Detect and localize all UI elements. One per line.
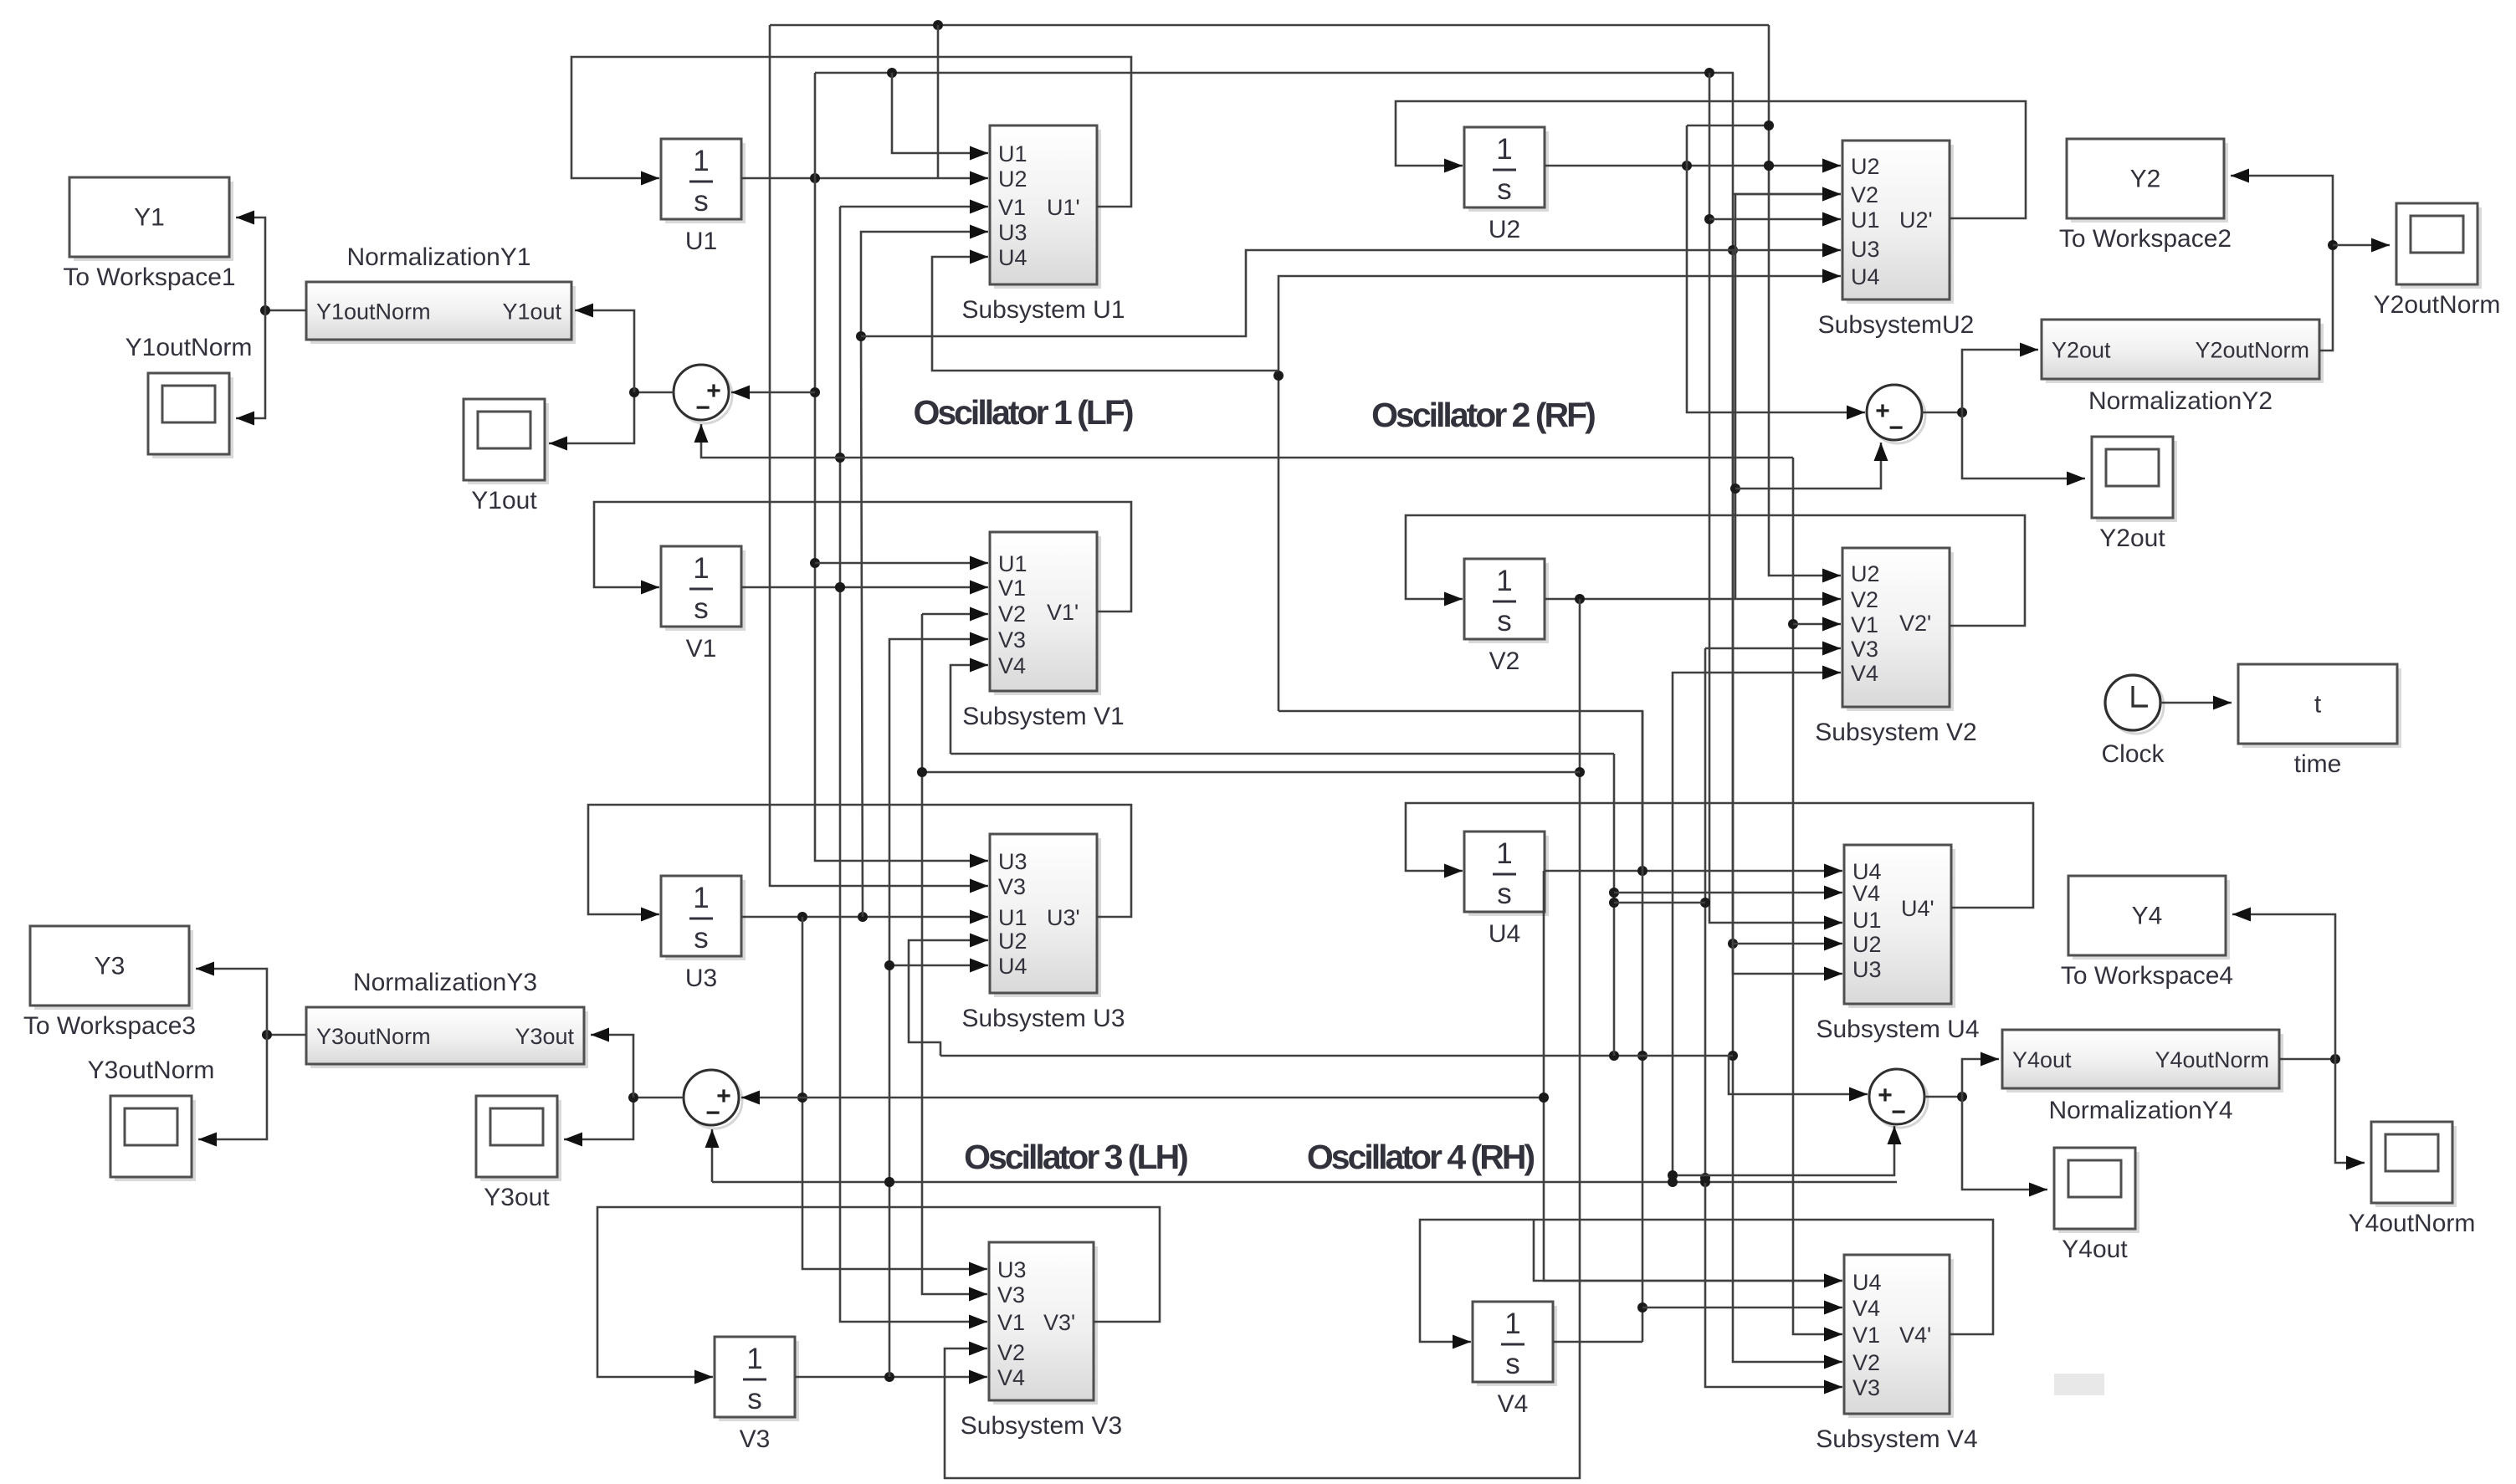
svg-text:U2: U2 — [998, 166, 1027, 192]
svg-text:Y3outNorm: Y3outNorm — [88, 1057, 215, 1084]
wire V3 riser x=1063 — [884, 632, 988, 1378]
svg-text:U4: U4 — [998, 245, 1027, 270]
svg-text:To Workspace4: To Workspace4 — [2061, 962, 2233, 990]
svg-text:V3: V3 — [1851, 637, 1878, 662]
svg-text:V1: V1 — [1851, 612, 1878, 637]
wire U1 integrator output row into Subsystem U1 port U2 — [741, 171, 988, 186]
svg-text:s: s — [694, 922, 709, 954]
wire U1 riser x=2043 down right trunk — [1704, 73, 1842, 930]
svg-text:Y4outNorm: Y4outNorm — [2349, 1210, 2476, 1237]
wire bus y=1312 eastbound to riser x=1845 — [802, 1097, 1544, 1099]
wire node F down to scope Y4outNorm — [2335, 1059, 2365, 1170]
scope Y4out — [2054, 1148, 2139, 1263]
wire V4 jog y=1079 — [1614, 902, 1705, 904]
integrator U2 (1/s) — [1464, 127, 1549, 243]
svg-text:U3: U3 — [997, 1257, 1027, 1282]
wire V2 riser x=2074 — [1730, 187, 1841, 600]
scope Y1out — [464, 399, 549, 514]
svg-text:Y3: Y3 — [95, 953, 126, 980]
svg-text:s: s — [694, 592, 709, 625]
svg-text:U3: U3 — [998, 849, 1027, 874]
svg-text:Y2outNorm: Y2outNorm — [2195, 338, 2309, 363]
scope Y4outNorm — [2349, 1122, 2476, 1237]
svg-text:U4: U4 — [1852, 1270, 1882, 1295]
wire U4 riser x=1963 up from output — [1278, 711, 1642, 871]
svg-text:s: s — [1497, 605, 1512, 637]
wire V1 bus y=547 eastbound — [840, 457, 1793, 459]
wire U3 riser x=2071 into Subsystem U4 port U3 — [1733, 250, 1842, 981]
title Oscillator 2 (RF) — [1371, 396, 1595, 434]
svg-text:To Workspace3: To Workspace3 — [23, 1012, 196, 1040]
clock block Clock — [2101, 675, 2165, 768]
svg-text:Subsystem V2: Subsystem V2 — [1815, 719, 1976, 746]
svg-text:V1: V1 — [997, 1310, 1025, 1335]
svg-text:NormalizationY3: NormalizationY3 — [353, 969, 537, 996]
svg-text:V4: V4 — [1852, 881, 1880, 906]
wire U2 riser x=2114 — [1764, 25, 1841, 583]
wire U2 staircase into Subsystem U3 port U2 — [909, 934, 988, 1057]
svg-text:s: s — [1505, 1348, 1520, 1380]
svg-text:Y2: Y2 — [2130, 166, 2161, 193]
svg-text:U4': U4' — [1901, 896, 1934, 921]
to-workspace Y1 (To Workspace1) — [63, 177, 235, 291]
svg-text:−: − — [705, 1099, 720, 1127]
subsystem V1 — [962, 532, 1124, 730]
svg-text:V4: V4 — [1498, 1390, 1529, 1418]
svg-text:U2: U2 — [1851, 154, 1880, 179]
svg-text:s: s — [1497, 173, 1512, 206]
wire U3 bus y=402 with jog up to y=299 — [861, 243, 1841, 337]
svg-text:−: − — [695, 394, 710, 422]
wire V4 riser x=1999 into Subsystem V2 port V4 — [1673, 666, 1841, 1176]
wire V4 riser x=1136 into Subsystem V1 port V4 — [951, 658, 988, 755]
svg-text:U1: U1 — [1851, 207, 1880, 233]
svg-text:V4: V4 — [1852, 1296, 1880, 1321]
svg-text:V1: V1 — [998, 195, 1026, 220]
svg-text:+: + — [1875, 397, 1890, 425]
subsystem V2 — [1815, 548, 1976, 746]
svg-text:U4: U4 — [998, 954, 1027, 979]
wire node D down to scope Y3outNorm — [198, 1035, 267, 1147]
svg-text:V2: V2 — [1851, 182, 1878, 207]
wire U4 integrator output row into Subsystem U4 port U4 — [1545, 864, 1842, 878]
wire V3 feedback loop (V3' to integrator V3) — [597, 1207, 1160, 1384]
svg-text:V3: V3 — [1852, 1375, 1880, 1400]
svg-text:U2': U2' — [1899, 207, 1933, 233]
svg-text:1: 1 — [693, 145, 709, 177]
svg-text:Y4outNorm: Y4outNorm — [2155, 1047, 2269, 1072]
svg-text:V1: V1 — [686, 635, 717, 663]
svg-text:U3: U3 — [1852, 957, 1882, 982]
subsystem V3 — [961, 1242, 1122, 1440]
svg-text:s: s — [1497, 878, 1512, 910]
normalization block NormalizationY4 — [2002, 1030, 2283, 1124]
svg-text:V4: V4 — [997, 1365, 1025, 1390]
wire U2 jog y=150 — [1687, 125, 1769, 127]
svg-text:V2': V2' — [1899, 611, 1931, 636]
wire U3 integrator output row into Subsystem U3 port U1 — [741, 910, 988, 924]
wire V3 stub into Subsystem V2 port V3 — [1705, 642, 1841, 656]
svg-text:V2: V2 — [997, 1340, 1025, 1365]
to-workspace Y4 (To Workspace4) — [2061, 876, 2233, 990]
svg-text:Y2out: Y2out — [2099, 525, 2165, 552]
wire U2 top bus y=30 — [770, 20, 1769, 30]
wire node to NormalizationY3 input — [591, 1028, 633, 1098]
wire U1 top bus y=87 — [815, 68, 1734, 78]
wire NormalizationY3 output to node D — [262, 1030, 306, 1040]
svg-text:U3: U3 — [998, 220, 1027, 245]
svg-text:To Workspace1: To Workspace1 — [63, 264, 235, 291]
svg-text:1: 1 — [693, 882, 709, 914]
svg-text:U3: U3 — [685, 965, 717, 992]
svg-text:t: t — [2314, 691, 2322, 719]
svg-text:U1: U1 — [685, 228, 717, 255]
subsystem U2 — [1818, 141, 1975, 339]
svg-text:V1: V1 — [1852, 1323, 1880, 1348]
svg-text:Y1out: Y1out — [471, 487, 537, 514]
svg-text:Y1out: Y1out — [502, 299, 561, 325]
integrator V1 (1/s) — [661, 546, 746, 663]
wire node A down to scope Y1outNorm — [236, 310, 265, 426]
svg-text:Subsystem U1: Subsystem U1 — [961, 296, 1125, 324]
svg-text:V3: V3 — [998, 627, 1026, 652]
subsystem U1 — [961, 125, 1125, 324]
wire V4 stub into Subsystem U4 port V4 — [1614, 886, 1842, 900]
wire U3 riser x=1029 (Subsystem U1 port U3) — [856, 225, 988, 918]
svg-text:U1: U1 — [998, 141, 1027, 166]
svg-text:1: 1 — [746, 1343, 762, 1375]
svg-text:NormalizationY2: NormalizationY2 — [2088, 387, 2273, 415]
wire V2 feedback loop (V2' to integrator V2) — [1406, 515, 2025, 626]
svg-text:U2: U2 — [1489, 216, 1520, 243]
wire U3 into sum3 right input — [741, 1091, 802, 1105]
wire U4 stub into Subsystem U3 port U4 — [889, 959, 988, 973]
to-workspace t (time) — [2238, 664, 2401, 778]
wire node B up to NormalizationY2 input — [1962, 343, 2038, 413]
svg-text:Subsystem V3: Subsystem V3 — [961, 1412, 1122, 1440]
svg-text:Y2outNorm: Y2outNorm — [2374, 291, 2501, 319]
wire V4 riser x=1963 (V4 to west bus) — [1637, 711, 1647, 1342]
svg-text:U2: U2 — [998, 929, 1027, 954]
svg-text:SubsystemU2: SubsystemU2 — [1818, 311, 1975, 339]
svg-text:time: time — [2294, 750, 2342, 778]
svg-text:V4': V4' — [1899, 1323, 1931, 1348]
wire V4 bus y=1405 into sum4 bottom input — [1668, 1126, 1902, 1180]
wire V1 integrator output row into Subsystem V1 port V1 — [741, 581, 988, 595]
wire V4 feedback loop (V4' to integrator V4) — [1420, 1220, 1993, 1349]
wire V1 stub into Subsystem V2 port V1 — [1793, 617, 1841, 632]
integrator U3 (1/s) — [661, 876, 746, 992]
svg-text:U2: U2 — [1851, 561, 1880, 586]
svg-text:Y1outNorm: Y1outNorm — [316, 299, 431, 325]
svg-text:Y3outNorm: Y3outNorm — [316, 1024, 431, 1049]
svg-text:s: s — [694, 185, 709, 217]
wire Clock to time block — [2160, 696, 2232, 710]
svg-text:V1: V1 — [998, 576, 1026, 601]
wire V2 bus y=923 westbound — [922, 771, 1580, 774]
wire V1 feedback loop (V1' to integrator V1) — [594, 502, 1131, 612]
wire riser x=2071 long (V2 port / U2 port / V4 V2 port) — [1728, 73, 1842, 1369]
svg-text:U4: U4 — [1489, 920, 1520, 948]
wire V4 bus y=1262 westbound — [940, 1051, 1733, 1061]
wire node F up to To Workspace4 — [2232, 908, 2335, 1060]
to-workspace Y2 (To Workspace2) — [2059, 139, 2232, 253]
wire node to NormalizationY1 input — [575, 304, 634, 393]
svg-text:U2: U2 — [1852, 932, 1882, 957]
subsystem U4 — [1816, 845, 1979, 1043]
wire V2 integrator output row into Subsystem V2 port V2 — [1545, 592, 1841, 606]
wire U3 riser x=959 down to Subsystem V3 port U3 — [797, 917, 987, 1277]
wire U2 stub into Subsystem U1 port U2 riser — [937, 25, 940, 178]
wire U2 integrator output row into SubsystemU2 port U2 — [1545, 159, 1841, 173]
svg-text:V3: V3 — [997, 1282, 1025, 1307]
svg-text:Oscillator 4 (RH): Oscillator 4 (RH) — [1307, 1138, 1535, 1176]
wire U4 bus y=443 to Subsystem U1 port U4 — [932, 250, 1278, 371]
sum block sum2 — [1867, 385, 1925, 443]
svg-text:Y4: Y4 — [2132, 903, 2163, 930]
svg-text:1: 1 — [1496, 837, 1512, 870]
svg-text:U1: U1 — [998, 905, 1027, 930]
title Oscillator 3 (LH) — [964, 1138, 1187, 1176]
wire U2 riser x=920 down to Subsystem U3 port V3 — [770, 25, 988, 893]
svg-text:1: 1 — [1504, 1307, 1520, 1340]
wire sum4 output to node E — [1924, 1092, 1967, 1102]
to-workspace Y3 (To Workspace3) — [23, 926, 196, 1040]
normalization block NormalizationY3 — [306, 969, 588, 1068]
integrator V2 (1/s) — [1464, 559, 1549, 675]
svg-text:To Workspace2: To Workspace2 — [2059, 225, 2232, 253]
svg-text:Subsystem U3: Subsystem U3 — [961, 1005, 1125, 1032]
wire V2 stub into Subsystem V1 port V2 — [922, 607, 988, 622]
svg-text:Subsystem U4: Subsystem U4 — [1816, 1016, 1979, 1043]
wire sum3 bottom input riser — [705, 1129, 720, 1182]
svg-text:U1: U1 — [1852, 908, 1882, 933]
svg-text:−: − — [1888, 414, 1904, 442]
wire V4 integrator output to riser — [1553, 1341, 1642, 1343]
wire bottom bus y=1413 (sum3 feed / V3 / V4 / sum4 feed) — [712, 1177, 1897, 1187]
svg-text:Clock: Clock — [2101, 740, 2165, 768]
wire V1 riser x=1004 vertical — [835, 207, 987, 1329]
sum block sum1 — [674, 365, 732, 423]
wire V1 into sum1 bottom input — [694, 424, 841, 458]
wire V2 into sum2 bottom input — [1735, 443, 1888, 489]
svg-text:V4: V4 — [998, 653, 1026, 678]
wire V1 riser x=2143 — [1788, 458, 1842, 1342]
svg-text:1: 1 — [1496, 133, 1512, 166]
wire NormalizationY4 output to node F — [2279, 1054, 2340, 1064]
wire riser x=1845 into Subsystem V4 port U4 — [1539, 871, 1842, 1288]
svg-text:U1': U1' — [1047, 195, 1080, 220]
wire U2 riser x=2016 down to sum2 — [1687, 125, 1865, 420]
svg-text:NormalizationY1: NormalizationY1 — [346, 243, 530, 271]
svg-text:V3: V3 — [998, 874, 1026, 899]
sum block sum3 — [684, 1070, 742, 1128]
svg-text:NormalizationY4: NormalizationY4 — [2048, 1097, 2232, 1124]
svg-text:Y1outNorm: Y1outNorm — [126, 334, 253, 361]
wire U1 feedback loop (U1' to integrator U1) — [571, 57, 1131, 207]
svg-text:Y2out: Y2out — [2052, 338, 2111, 363]
svg-text:s: s — [747, 1383, 762, 1415]
svg-text:Subsystem V1: Subsystem V1 — [962, 703, 1124, 730]
wire U1 stub into Subsystem U1 port U1 — [892, 73, 988, 161]
wire V3 integrator output row into Subsystem V3 port V4 — [795, 1370, 987, 1384]
svg-text:Y3out: Y3out — [515, 1024, 574, 1049]
wire V1 riser x=1004 — [840, 200, 988, 214]
wire V3 riser x=2038 — [1700, 648, 1842, 1394]
title Oscillator 1 (LF) — [913, 393, 1132, 432]
wire U1 stub into Subsystem V1 port U1 — [815, 556, 988, 571]
scope Y3outNorm — [88, 1057, 215, 1181]
faint gray mark — [2054, 1374, 2104, 1395]
svg-text:−: − — [1891, 1098, 1906, 1126]
wire U3 feedback loop (U3' to integrator U3) — [588, 805, 1131, 922]
title Oscillator 4 (RH) — [1307, 1138, 1535, 1176]
svg-text:1: 1 — [1496, 565, 1512, 597]
wire stub into SubsystemU2 port V2 — [1733, 187, 1841, 202]
wire sum2 output to node B — [1922, 407, 1967, 417]
integrator U4 (1/s) — [1464, 832, 1549, 948]
svg-text:Y3out: Y3out — [484, 1184, 550, 1211]
svg-text:V2: V2 — [1489, 647, 1520, 675]
wire V2 riser x=1888 down — [945, 599, 1585, 1478]
normalization block NormalizationY1 — [306, 243, 576, 344]
wire U4 stub into Subsystem V4 port U4 — [1534, 1220, 1842, 1288]
wire V4 bus y=901 eastbound — [951, 753, 1614, 755]
wire node E up to NormalizationY4 input — [1962, 1052, 1999, 1098]
svg-text:Oscillator 3 (LH): Oscillator 3 (LH) — [964, 1138, 1187, 1176]
wire sum3 output to node — [564, 1093, 684, 1147]
wire U1 into sum1 right input — [731, 386, 815, 400]
svg-text:Y4out: Y4out — [2062, 1236, 2128, 1263]
integrator V3 (1/s) — [715, 1337, 799, 1453]
svg-text:V3': V3' — [1043, 1310, 1075, 1335]
wire node E down to scope Y4out — [1962, 1097, 2047, 1197]
wire U2 feedback loop (U2' to integrator U2) — [1396, 101, 2026, 218]
wire U1 riser x=974 (output to top bus and down to Subsystem U3) — [810, 73, 988, 868]
svg-text:U3: U3 — [1851, 237, 1880, 262]
svg-text:Y1: Y1 — [134, 204, 165, 232]
subsystem U3 — [961, 834, 1125, 1032]
svg-text:V2: V2 — [1851, 587, 1878, 612]
wire V4 riser x=1929 — [1609, 754, 1619, 1056]
wire stub into Subsystem U4 port U2 — [1733, 937, 1842, 951]
svg-text:V2: V2 — [1852, 1350, 1880, 1375]
wire sum1 output to node — [549, 387, 674, 451]
svg-text:+: + — [1878, 1082, 1893, 1109]
wire NormalizationY2 output to node C — [2231, 169, 2338, 351]
svg-text:U1: U1 — [998, 551, 1027, 576]
svg-text:U4: U4 — [1851, 264, 1880, 289]
svg-text:Oscillator 2 (RF): Oscillator 2 (RF) — [1371, 396, 1595, 434]
svg-text:1: 1 — [693, 552, 709, 585]
svg-text:U3': U3' — [1047, 905, 1080, 930]
scope Y3out — [476, 1096, 561, 1211]
wire U4 feedback loop (U4' to integrator U4) — [1406, 803, 2033, 908]
wire node C to scope Y2outNorm — [2333, 238, 2390, 253]
sum block sum4 — [1869, 1069, 1928, 1128]
wire sum4 left input drop from bus — [1729, 1056, 1868, 1102]
svg-text:Subsystem V4: Subsystem V4 — [1816, 1425, 1977, 1453]
wire U4 riser x=1528 — [1273, 269, 1841, 712]
scope Y1outNorm — [126, 334, 253, 458]
normalization block NormalizationY2 — [2042, 320, 2324, 415]
wire node A up to To Workspace1 — [236, 211, 265, 311]
wire node B down to scope Y2out — [1962, 412, 2085, 486]
scope Y2outNorm — [2374, 203, 2501, 319]
integrator V4 (1/s) — [1473, 1302, 1557, 1418]
integrator U1 (1/s) — [661, 139, 746, 255]
wire V4 stub into Subsystem V4 port V4 — [1642, 1301, 1842, 1315]
subsystem V4 — [1816, 1255, 1977, 1453]
wire NormalizationY1 output to node A — [260, 305, 306, 315]
svg-text:V4: V4 — [1851, 661, 1878, 686]
svg-text:V1': V1' — [1047, 600, 1079, 625]
svg-text:V2: V2 — [998, 601, 1026, 627]
wire node D up to To Workspace3 — [196, 962, 267, 1036]
svg-text:Y4out: Y4out — [2012, 1047, 2072, 1072]
wire V2 riser x=1102 — [917, 614, 987, 1302]
svg-text:V3: V3 — [740, 1425, 771, 1453]
wire U1 stub into SubsystemU2 port U1 — [1709, 212, 1841, 227]
scope Y2out — [2092, 437, 2177, 552]
svg-text:Oscillator 1 (LF): Oscillator 1 (LF) — [913, 393, 1132, 432]
